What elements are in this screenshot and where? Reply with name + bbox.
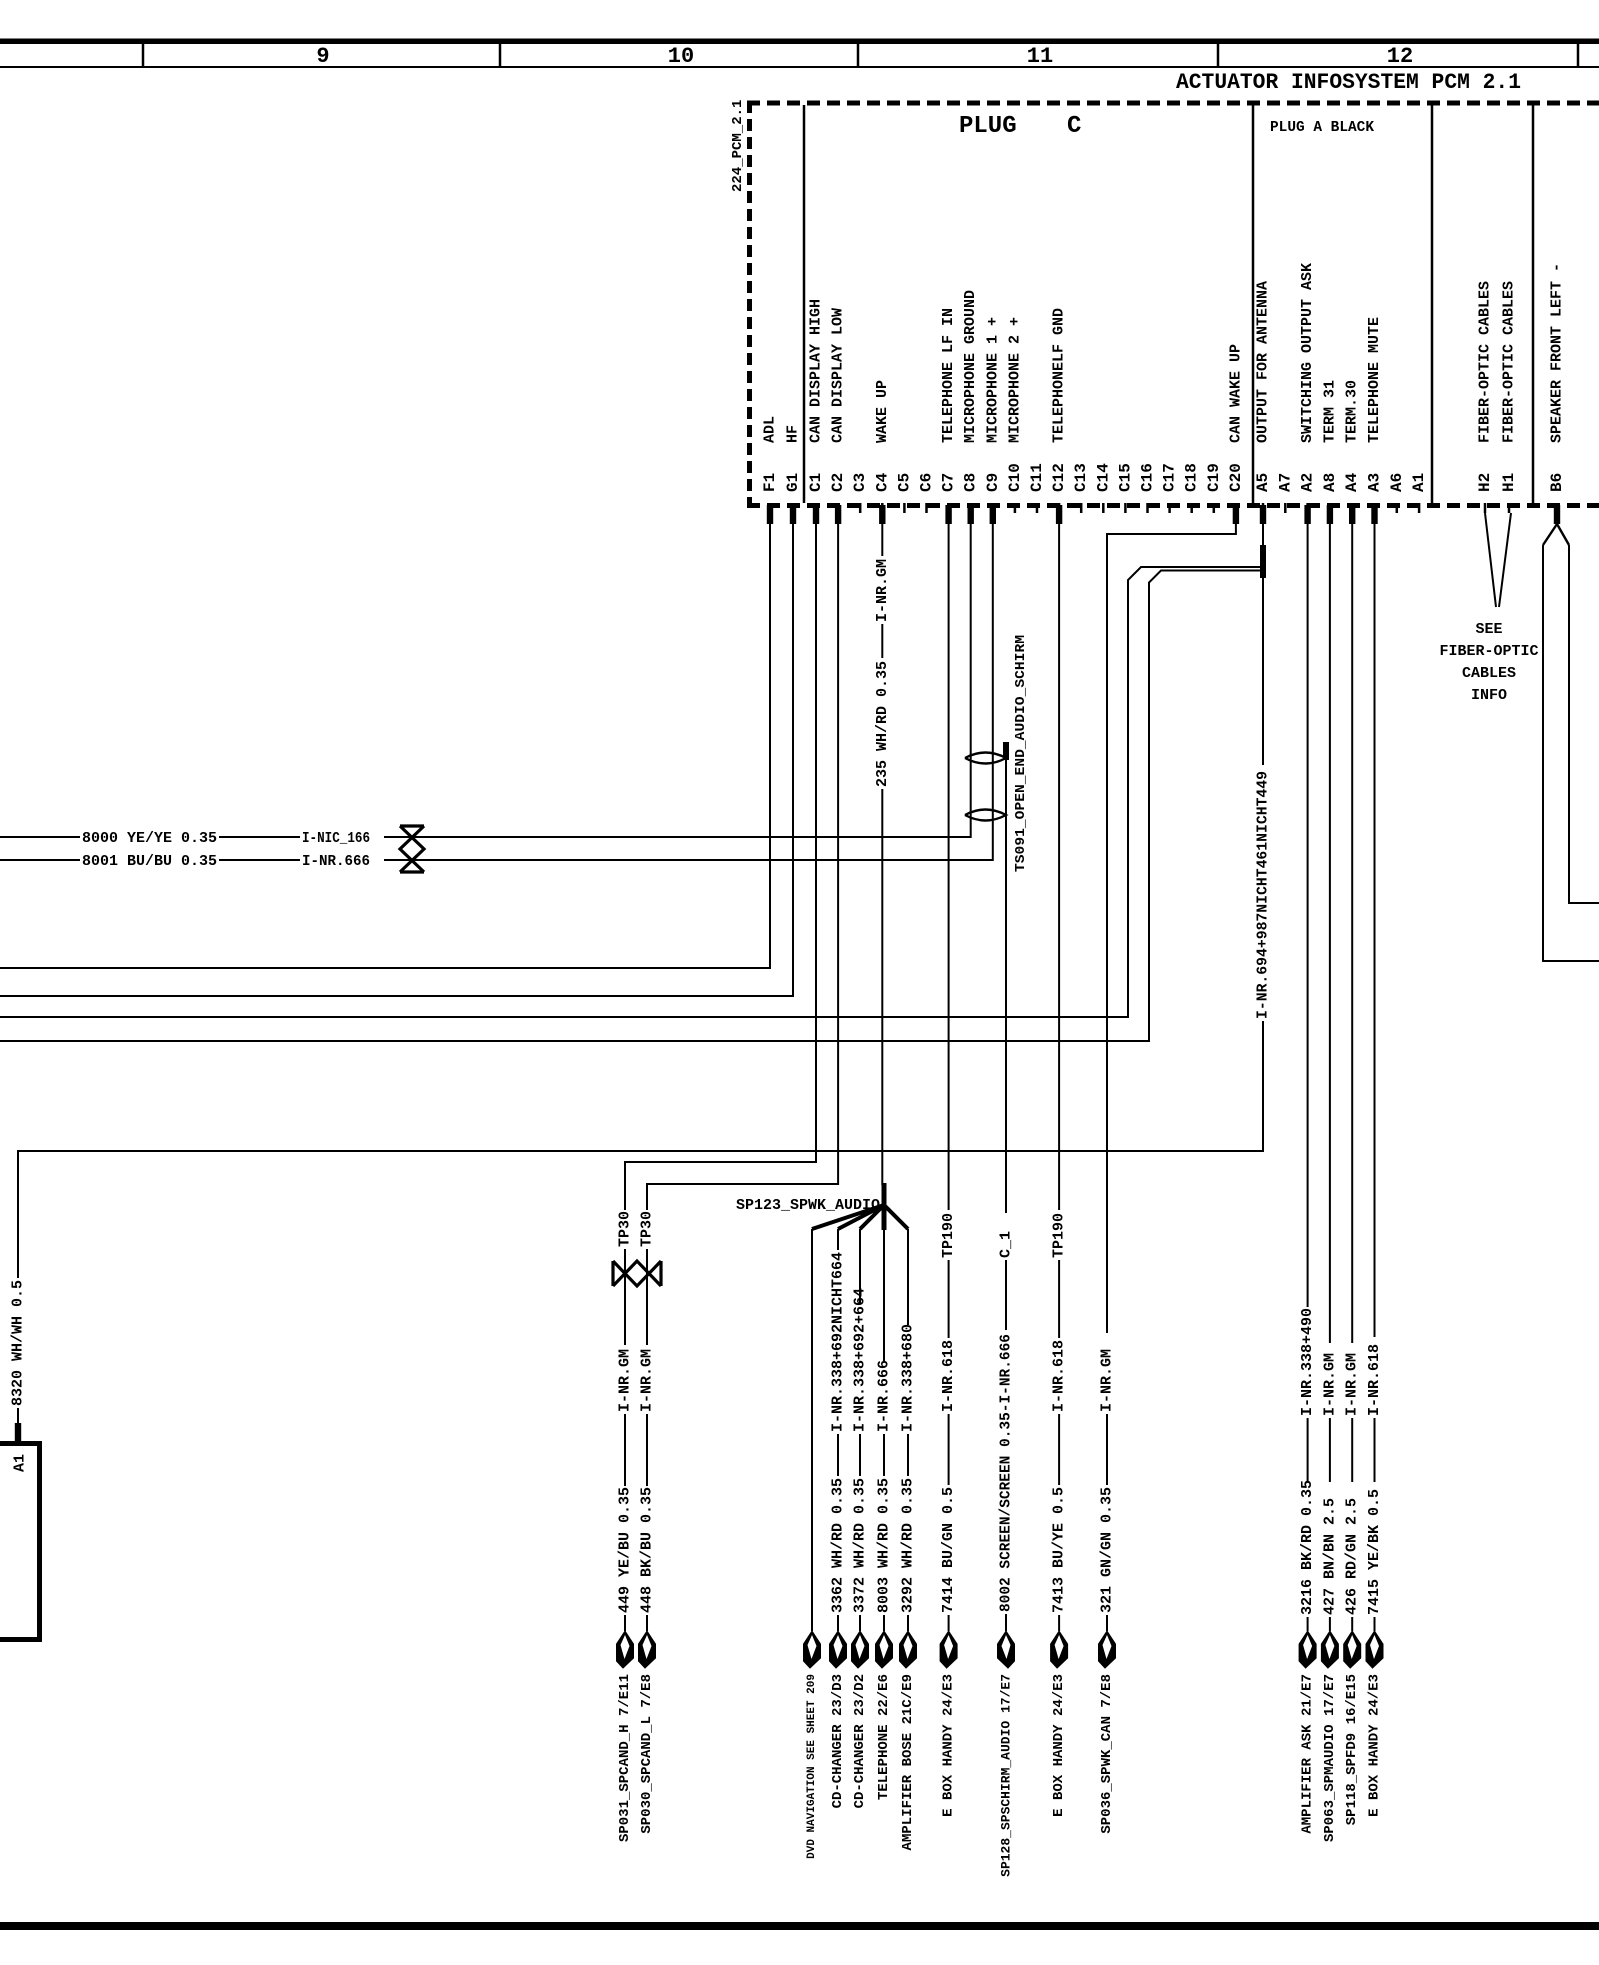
wire to connector arrow — [1351, 1617, 1353, 1631]
ruler tick x=143 — [142, 44, 145, 67]
svg-text:C5: C5 — [895, 473, 913, 492]
svg-text:7413 BU/YE 0.5: 7413 BU/YE 0.5 — [1051, 1487, 1068, 1613]
wire segment — [1058, 1414, 1060, 1485]
off-page connector arrow (CD-CHANGER D2) — [852, 1631, 869, 1668]
wire C8 MICROPHONE GROUND through shield to left edge (8000) — [384, 524, 971, 837]
pin C10 MICROPHONE 2 + — [1006, 317, 1024, 513]
off-page connector arrow (DVD NAVIGATION) — [804, 1631, 821, 1668]
svg-text:8002 SCREEN/SCREEN 0.35-I-NR.6: 8002 SCREEN/SCREEN 0.35-I-NR.666 — [998, 1334, 1015, 1612]
wire splice branch to CD-CHANGER (D2) — [859, 1229, 861, 1304]
svg-text:TERM 31: TERM 31 — [1321, 380, 1338, 443]
off-page connector arrow (AMPLIFIER BOSE) — [900, 1631, 917, 1668]
wire C4 segment — [881, 624, 883, 658]
section divider plug A | plug H — [1431, 105, 1434, 503]
wire to connector arrow — [948, 1615, 950, 1631]
off-page connector arrow (E BOX HANDY) — [940, 1631, 957, 1668]
pin stub A1 (component box) — [15, 1423, 21, 1442]
svg-text:A6: A6 — [1388, 473, 1406, 492]
note SEE FIBER-OPTIC CABLES INFO — [1439, 621, 1538, 704]
svg-text:I-NR.GM: I-NR.GM — [639, 1349, 656, 1412]
svg-text:I-NR.338+692NICHT664: I-NR.338+692NICHT664 — [830, 1252, 847, 1432]
svg-text:3372 WH/RD 0.35: 3372 WH/RD 0.35 — [852, 1478, 869, 1613]
speaker wire left branch to right edge — [1543, 545, 1599, 961]
wire splice branch to CD-CHANGER (D3) — [837, 1229, 839, 1250]
svg-text:I-NR.338+680: I-NR.338+680 — [900, 1324, 917, 1432]
pin C11 — [1028, 463, 1046, 513]
splice fan-out wires — [812, 1205, 908, 1229]
svg-text:G1: G1 — [784, 473, 802, 492]
pin A2 SWITCHING OUTPUT ASK — [1299, 263, 1317, 524]
pin C7 TELEPHONE LF IN — [940, 308, 958, 524]
wire A5 lower segment to row 1151 — [18, 1021, 1263, 1278]
svg-text:A1: A1 — [12, 1454, 29, 1472]
svg-text:3362 WH/RD 0.35: 3362 WH/RD 0.35 — [830, 1478, 847, 1613]
svg-text:TP30: TP30 — [639, 1211, 656, 1247]
svg-text:C8: C8 — [962, 473, 980, 492]
off-page connector arrow (CD-CHANGER D3) — [830, 1631, 847, 1668]
pin C8 MICROPHONE GROUND — [962, 290, 980, 524]
wire segment — [1329, 1418, 1331, 1482]
wire into component A1 pin — [17, 1408, 19, 1424]
pin C12 TELEPHONELF GND — [1050, 308, 1068, 524]
pin C19 — [1205, 463, 1223, 513]
svg-text:CD-CHANGER 23/D2: CD-CHANGER 23/D2 — [852, 1674, 868, 1808]
wire segment — [948, 1260, 950, 1338]
pin C3 — [851, 473, 869, 513]
svg-text:F1: F1 — [761, 473, 779, 492]
wire to connector arrow — [1329, 1617, 1331, 1631]
svg-text:ADL: ADL — [762, 416, 779, 443]
wire A3 TELEPHONE MUTE down — [1374, 524, 1376, 1337]
pin C20 CAN WAKE UP — [1227, 344, 1245, 524]
svg-text:A4: A4 — [1343, 472, 1361, 492]
off-page connector arrow (E BOX HANDY, C12) — [1051, 1631, 1068, 1668]
pin A8 TERM 31 — [1321, 380, 1339, 524]
branch pair upper wire from A5 junction — [0, 567, 1263, 1017]
svg-text:C4: C4 — [873, 472, 891, 492]
svg-text:12: 12 — [1387, 44, 1413, 69]
svg-text:SEE: SEE — [1475, 621, 1502, 638]
svg-text:TP190: TP190 — [1051, 1213, 1068, 1258]
svg-text:TP190: TP190 — [940, 1213, 957, 1258]
svg-text:H2: H2 — [1476, 473, 1494, 492]
twisted-pair symbol TP30 pair — [613, 1261, 661, 1286]
svg-text:C14: C14 — [1094, 463, 1112, 492]
svg-text:MICROPHONE 2 +: MICROPHONE 2 + — [1006, 317, 1023, 443]
wire segment — [1374, 1418, 1376, 1482]
pin C1 CAN DISPLAY HIGH — [807, 299, 825, 524]
off-page connector arrow (SP063) — [1321, 1631, 1338, 1668]
svg-text:3292 WH/RD 0.35: 3292 WH/RD 0.35 — [900, 1478, 917, 1613]
pin C2 CAN DISPLAY LOW — [829, 308, 847, 524]
svg-text:10: 10 — [668, 44, 694, 69]
svg-text:7415 YE/BK 0.5: 7415 YE/BK 0.5 — [1366, 1489, 1383, 1615]
wire segment — [837, 1434, 839, 1476]
wire C20 CAN WAKE UP route left and down — [1107, 524, 1236, 1333]
svg-text:I-NIC_166: I-NIC_166 — [302, 830, 370, 847]
wire to connector arrow — [859, 1615, 861, 1631]
wire segment — [883, 1434, 885, 1476]
svg-text:235 WH/RD 0.35: 235 WH/RD 0.35 — [874, 661, 891, 787]
pin C16 — [1139, 463, 1157, 513]
wire segment — [1351, 1418, 1353, 1482]
wire A4 TERM.30 down — [1351, 524, 1353, 1343]
component box (pin A1, bottom-left) — [0, 1444, 40, 1640]
fiber-optic cable lines from H2/H1 — [1485, 513, 1511, 607]
svg-text:3216 BK/RD 0.35: 3216 BK/RD 0.35 — [1299, 1480, 1316, 1615]
speaker wire right branch to right edge — [1569, 545, 1599, 903]
wire A2 SWITCHING OUTPUT ASK down — [1307, 524, 1309, 1307]
svg-text:ACTUATOR INFOSYSTEM PCM 2.1: ACTUATOR INFOSYSTEM PCM 2.1 — [1176, 70, 1521, 95]
pin C9 MICROPHONE 1 + — [984, 317, 1002, 524]
svg-text:FIBER-OPTIC CABLES: FIBER-OPTIC CABLES — [1477, 281, 1494, 443]
svg-text:A8: A8 — [1321, 473, 1339, 492]
svg-text:TELEPHONELF GND: TELEPHONELF GND — [1051, 308, 1068, 443]
svg-text:E BOX HANDY 24/E3: E BOX HANDY 24/E3 — [1367, 1674, 1383, 1817]
wire F1 ADL to left edge — [0, 524, 770, 968]
off-page connector arrow (E BOX HANDY, A3) — [1366, 1631, 1383, 1668]
branch pair lower wire from A5 junction — [0, 571, 1263, 1042]
wire segment 8001 — [219, 859, 300, 861]
svg-text:224_PCM_2.1: 224_PCM_2.1 — [730, 100, 746, 192]
wire segment — [1058, 1260, 1060, 1338]
wire to connector arrow — [837, 1615, 839, 1631]
svg-text:8001 BU/BU 0.35: 8001 BU/BU 0.35 — [82, 853, 217, 870]
wire segment 8000 — [219, 836, 300, 838]
wire G1 HF to left edge — [0, 524, 793, 996]
pin C4 WAKE UP — [873, 380, 891, 524]
svg-text:H1: H1 — [1500, 473, 1518, 492]
svg-text:C12: C12 — [1050, 463, 1068, 492]
wire to connector arrow — [1374, 1617, 1376, 1631]
svg-text:C6: C6 — [918, 473, 936, 492]
wire segment 8000 left — [0, 836, 80, 838]
pin C13 — [1072, 463, 1090, 513]
svg-text:C: C — [1067, 113, 1081, 140]
svg-text:8320 WH/WH 0.5: 8320 WH/WH 0.5 — [10, 1280, 27, 1406]
wire C1 branch to connector arrow — [624, 1615, 626, 1631]
wire C2 CAN DISPLAY LOW down to splice SP030 branch — [647, 524, 838, 1210]
svg-text:I-NR.GM: I-NR.GM — [617, 1349, 634, 1412]
off-page connector arrow (SP030) — [639, 1631, 656, 1668]
section divider plug H | plug B — [1532, 105, 1535, 503]
svg-text:TERM.30: TERM.30 — [1344, 380, 1361, 443]
svg-text:426 RD/GN 2.5: 426 RD/GN 2.5 — [1344, 1498, 1361, 1615]
svg-text:C13: C13 — [1072, 463, 1090, 492]
svg-text:SWITCHING OUTPUT ASK: SWITCHING OUTPUT ASK — [1299, 263, 1316, 443]
pin C17 — [1161, 463, 1179, 513]
svg-text:CAN WAKE UP: CAN WAKE UP — [1227, 344, 1244, 443]
svg-text:A2: A2 — [1299, 473, 1317, 492]
svg-text:C16: C16 — [1139, 463, 1157, 492]
wire to connector arrow — [1005, 1614, 1007, 1631]
svg-text:TELEPHONE 22/E6: TELEPHONE 22/E6 — [876, 1674, 892, 1800]
svg-text:8003 WH/RD 0.35: 8003 WH/RD 0.35 — [876, 1478, 893, 1613]
svg-text:FIBER-OPTIC CABLES: FIBER-OPTIC CABLES — [1501, 281, 1518, 443]
svg-text:PLUG A BLACK: PLUG A BLACK — [1270, 119, 1374, 136]
ruler tick x=1218 — [1217, 44, 1220, 67]
svg-text:I-NR.GM: I-NR.GM — [1099, 1349, 1116, 1412]
wire C2 branch segment — [646, 1414, 648, 1486]
svg-text:TP30: TP30 — [617, 1211, 634, 1247]
svg-text:448 BK/BU 0.35: 448 BK/BU 0.35 — [639, 1487, 656, 1613]
svg-text:C17: C17 — [1161, 463, 1179, 492]
top border bar — [0, 39, 1599, 45]
svg-text:A3: A3 — [1366, 473, 1384, 492]
svg-text:C1: C1 — [807, 473, 825, 492]
wire B6 SPEAKER FRONT LEFT - split pair — [1543, 524, 1569, 545]
svg-text:9: 9 — [316, 44, 329, 69]
svg-text:I-NR.694+987NICHT461NICHT449: I-NR.694+987NICHT461NICHT449 — [1255, 771, 1272, 1019]
connector box dashed bottom edge — [747, 503, 1599, 508]
off-page connector arrow (TELEPHONE) — [876, 1631, 893, 1668]
connector box 224_PCM_2.1 dashed top edge — [747, 101, 1599, 106]
wire C4 down to splice SP123 — [881, 789, 883, 1185]
section divider F/G | C — [803, 105, 806, 503]
svg-text:PLUG: PLUG — [959, 113, 1017, 140]
svg-text:A7: A7 — [1276, 473, 1294, 492]
wire to connector arrow — [1058, 1615, 1060, 1631]
wire to connector arrow — [883, 1615, 885, 1631]
svg-text:A5: A5 — [1254, 473, 1272, 492]
svg-text:MICROPHONE GROUND: MICROPHONE GROUND — [962, 290, 979, 443]
svg-text:TELEPHONE MUTE: TELEPHONE MUTE — [1366, 317, 1383, 443]
svg-text:C2: C2 — [829, 473, 847, 492]
svg-text:CAN DISPLAY LOW: CAN DISPLAY LOW — [830, 308, 847, 443]
bottom border bar — [0, 1922, 1599, 1930]
svg-text:8000 YE/YE 0.35: 8000 YE/YE 0.35 — [82, 830, 217, 847]
svg-text:SPEAKER FRONT LEFT -: SPEAKER FRONT LEFT - — [1549, 263, 1566, 443]
svg-text:I-NR.GM: I-NR.GM — [1344, 1353, 1361, 1416]
wire C9 MICROPHONE 1 + through shield to left edge (8001) — [384, 524, 993, 860]
pin G1 HF — [784, 425, 802, 524]
svg-text:SP031_SPCAND_H 7/E11: SP031_SPCAND_H 7/E11 — [617, 1674, 633, 1842]
pin C5 — [895, 473, 913, 513]
wire segment 8001 left — [0, 859, 80, 861]
svg-text:C20: C20 — [1227, 463, 1245, 492]
wire to connector arrow — [907, 1615, 909, 1631]
wire segment — [907, 1434, 909, 1476]
wire C12 TELEPHONELF GND down — [1058, 524, 1060, 1210]
wire segment — [1106, 1414, 1108, 1485]
wire segment — [859, 1434, 861, 1476]
ruler tick x=858 — [857, 44, 860, 67]
svg-text:TS091_OPEN_END_AUDIO_SCHIRM: TS091_OPEN_END_AUDIO_SCHIRM — [1013, 635, 1029, 872]
svg-text:C19: C19 — [1205, 463, 1223, 492]
svg-text:INFO: INFO — [1471, 687, 1507, 704]
ruler tick x=500 — [499, 44, 502, 67]
svg-text:I-NR.618: I-NR.618 — [1366, 1344, 1383, 1416]
off-page connector arrow (SP036) — [1099, 1631, 1116, 1668]
svg-text:C11: C11 — [1028, 463, 1046, 492]
svg-text:I-NR.666: I-NR.666 — [302, 853, 370, 870]
svg-text:I-NR.GM: I-NR.GM — [874, 559, 891, 622]
svg-text:I-NR.GM: I-NR.GM — [1321, 1353, 1338, 1416]
shield symbol TS091 lower lens — [965, 810, 1006, 821]
svg-text:SP030_SPCAND_L 7/E8: SP030_SPCAND_L 7/E8 — [639, 1674, 655, 1834]
svg-text:SP128_SPSCHIRM_AUDIO 17/E7: SP128_SPSCHIRM_AUDIO 17/E7 — [999, 1674, 1014, 1877]
wire A5 OUTPUT FOR ANTENNA down — [1262, 524, 1264, 765]
pin A7 — [1276, 473, 1294, 513]
svg-text:E BOX HANDY 24/E3: E BOX HANDY 24/E3 — [941, 1674, 957, 1817]
wire to connector arrow — [1106, 1615, 1108, 1631]
svg-text:C_1: C_1 — [998, 1231, 1015, 1258]
pin F1 ADL — [761, 416, 779, 524]
svg-text:449 YE/BU 0.35: 449 YE/BU 0.35 — [617, 1487, 634, 1613]
svg-text:MICROPHONE 1 +: MICROPHONE 1 + — [984, 317, 1001, 443]
pin B6 SPEAKER FRONT LEFT - — [1548, 263, 1566, 524]
svg-text:HF: HF — [785, 425, 802, 443]
svg-text:CAN DISPLAY HIGH: CAN DISPLAY HIGH — [808, 299, 825, 443]
wire C1 CAN DISPLAY HIGH down to splice SP031 branch — [625, 524, 816, 1210]
wire splice branch to TELEPHONE — [883, 1230, 885, 1361]
svg-text:SP036_SPWK_CAN 7/E8: SP036_SPWK_CAN 7/E8 — [1099, 1674, 1115, 1834]
pin A6 — [1388, 473, 1406, 513]
shield drain wire down — [1005, 758, 1007, 1213]
pin A1 — [1410, 473, 1428, 513]
svg-text:C18: C18 — [1183, 463, 1201, 492]
svg-text:CABLES: CABLES — [1462, 665, 1516, 682]
svg-text:TELEPHONE LF IN: TELEPHONE LF IN — [940, 308, 957, 443]
wire segment — [948, 1414, 950, 1485]
pin C18 — [1183, 463, 1201, 513]
svg-text:CD-CHANGER 23/D3: CD-CHANGER 23/D3 — [830, 1674, 846, 1808]
svg-text:321 GN/GN 0.35: 321 GN/GN 0.35 — [1099, 1487, 1116, 1613]
svg-text:FIBER-OPTIC: FIBER-OPTIC — [1439, 643, 1538, 660]
wire C2 branch to connector arrow — [646, 1615, 648, 1631]
svg-text:C7: C7 — [940, 473, 958, 492]
off-page connector arrow (SP128, mirrored) — [998, 1631, 1015, 1668]
svg-text:C15: C15 — [1116, 463, 1134, 492]
svg-text:B6: B6 — [1548, 473, 1566, 492]
off-page connector arrow (SP031) — [617, 1631, 634, 1668]
pin C14 — [1094, 463, 1112, 513]
pin A4 TERM.30 — [1343, 380, 1361, 524]
wire splice branch to AMPLIFIER BOSE — [907, 1229, 909, 1325]
svg-text:A1: A1 — [1410, 473, 1428, 492]
wire A8 TERM 31 down — [1329, 524, 1331, 1343]
wire C7 TELEPHONE LF IN down — [948, 524, 950, 1210]
svg-text:I-NR.338+692+664: I-NR.338+692+664 — [852, 1288, 869, 1432]
shield symbol TS091 upper lens — [965, 753, 1006, 764]
twisted-pair symbol on wires 8000/8001 — [400, 826, 424, 872]
svg-text:11: 11 — [1027, 44, 1053, 69]
ruler tick x=1578 — [1577, 44, 1580, 67]
wire C1 branch through twisted-pair symbol — [624, 1249, 626, 1345]
section divider plug C | plug A — [1252, 105, 1255, 503]
svg-text:OUTPUT FOR ANTENNA: OUTPUT FOR ANTENNA — [1255, 281, 1272, 443]
svg-text:DVD NAVIGATION SEE SHEET 209: DVD NAVIGATION SEE SHEET 209 — [806, 1674, 818, 1859]
svg-text:SP063_SPMAUDIO 17/E7: SP063_SPMAUDIO 17/E7 — [1322, 1674, 1338, 1842]
svg-text:7414 BU/GN 0.5: 7414 BU/GN 0.5 — [940, 1487, 957, 1613]
off-page connector arrow (SP118) — [1344, 1631, 1361, 1668]
shield drain stub — [1003, 742, 1009, 760]
svg-text:C3: C3 — [851, 473, 869, 492]
svg-text:AMPLIFIER ASK 21/E7: AMPLIFIER ASK 21/E7 — [1300, 1674, 1316, 1834]
wire segment — [1005, 1260, 1007, 1330]
svg-text:WAKE UP: WAKE UP — [874, 380, 891, 443]
pin A3 TELEPHONE MUTE — [1366, 317, 1384, 524]
connector box dashed left edge — [747, 101, 752, 508]
svg-text:AMPLIFIER BOSE 21C/E9: AMPLIFIER BOSE 21C/E9 — [900, 1674, 916, 1850]
pin H2 FIBER-OPTIC CABLES — [1476, 281, 1494, 513]
ruler band bottom line — [0, 66, 1599, 68]
svg-text:E BOX HANDY 24/E3: E BOX HANDY 24/E3 — [1051, 1674, 1067, 1817]
wire segment — [1307, 1418, 1309, 1482]
wire C4 WAKE UP upper segment — [881, 524, 883, 556]
svg-text:SP118_SPFD9 16/E15: SP118_SPFD9 16/E15 — [1344, 1674, 1360, 1825]
svg-text:I-NR.338+490: I-NR.338+490 — [1299, 1308, 1316, 1416]
splice SP123_SPWK_AUDIO junction — [882, 1183, 887, 1230]
pin C15 — [1116, 463, 1134, 513]
svg-text:I-NR.618: I-NR.618 — [940, 1340, 957, 1412]
wire C1 branch segment — [624, 1414, 626, 1486]
svg-text:I-NR.666: I-NR.666 — [876, 1360, 893, 1432]
junction on A5 wire — [1260, 545, 1266, 578]
pin A5 OUTPUT FOR ANTENNA — [1254, 281, 1272, 524]
wire C2 branch through twisted-pair symbol — [646, 1249, 648, 1345]
pin C6 — [918, 473, 936, 513]
svg-text:C10: C10 — [1006, 463, 1024, 492]
wire splice branch to DVD NAVIGATION — [811, 1229, 813, 1631]
svg-text:I-NR.618: I-NR.618 — [1051, 1340, 1068, 1412]
off-page connector arrow (AMPLIFIER ASK) — [1299, 1631, 1316, 1668]
svg-text:C9: C9 — [984, 473, 1002, 492]
svg-text:427 BN/BN 2.5: 427 BN/BN 2.5 — [1321, 1498, 1338, 1615]
pin H1 FIBER-OPTIC CABLES — [1500, 281, 1518, 513]
wire to connector arrow — [1307, 1617, 1309, 1631]
